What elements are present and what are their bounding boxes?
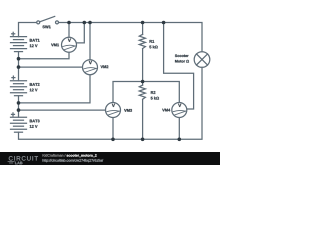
battery BAT1 bbox=[11, 32, 27, 51]
voltmeter VM4 bbox=[172, 103, 187, 118]
node A2 BAT2+ / VM2 left bbox=[17, 65, 21, 69]
node bottom bus / VM4 bottom bbox=[178, 138, 182, 142]
node top bus / VM4 branch bbox=[162, 21, 166, 25]
battery BAT3 bbox=[11, 113, 27, 132]
node top bus / VM1 top bbox=[67, 21, 71, 25]
label VM2 bbox=[101, 65, 109, 68]
wire VM3 bottom bbox=[112, 118, 114, 140]
wire R2 bottom lead to bottom bus bbox=[142, 99, 144, 139]
label VM4 bbox=[162, 109, 170, 112]
wire VM1 bottom elbow to node A1 bbox=[19, 52, 70, 58]
node B1 BAT2- / VM2 bottom bbox=[17, 101, 21, 105]
footer watermark bar bbox=[0, 152, 220, 165]
logo CIRCUITLAB bbox=[9, 156, 38, 160]
wire VM2 left to node A2 bbox=[19, 66, 83, 68]
resistor R1 bbox=[139, 34, 145, 48]
battery BAT2 bbox=[11, 76, 27, 96]
wire top bus right segment (SW1 to motor top corner) bbox=[59, 23, 202, 52]
node top bus / R1 top bbox=[141, 21, 145, 25]
wire VM4 right elbow to bus bbox=[164, 23, 194, 110]
footer text line 2 bbox=[43, 159, 104, 162]
label BAT1 bbox=[30, 39, 40, 42]
wire VM2 top bbox=[89, 23, 91, 60]
node B2 BAT3+ / VM3 left bbox=[17, 108, 21, 112]
wire top bus left segment (battery+ to SW1) bbox=[19, 23, 37, 37]
node A1 BAT1- / VM1 bottom bbox=[17, 57, 21, 61]
wire left column BAT3- to bottom bus to motor bottom bbox=[19, 67, 203, 139]
label Scooter Motor line 2 bbox=[175, 60, 189, 63]
wire R1 top lead bbox=[142, 23, 144, 35]
node mid net / R2 top bbox=[141, 80, 145, 84]
node bottom bus / R2 bottom bbox=[141, 138, 145, 142]
node bottom bus / VM3 bottom bbox=[111, 138, 115, 142]
wire left column BAT2- to BAT3+ bbox=[18, 96, 20, 117]
voltmeter VM3 bbox=[106, 103, 121, 118]
label R2 value 5 kOhm bbox=[151, 97, 159, 100]
switch SW1 bbox=[37, 16, 59, 24]
voltmeter VM2 bbox=[83, 60, 98, 75]
node top bus / VM1 right bbox=[83, 21, 87, 25]
voltmeter VM1 bbox=[62, 37, 77, 52]
wire VM2 bottom elbow to node B1 bbox=[19, 75, 91, 103]
wire VM4 bottom bbox=[178, 117, 180, 139]
label R1 value 5 kOhm bbox=[149, 45, 157, 48]
label VM3 bbox=[124, 109, 132, 112]
wire R2 top lead bbox=[142, 82, 144, 86]
label R2 bbox=[151, 91, 156, 94]
label BAT3 value 12 V bbox=[30, 125, 38, 128]
label VM1 bbox=[51, 44, 59, 47]
wire VM1 right elbow to bus bbox=[76, 23, 84, 43]
label BAT2 bbox=[30, 83, 40, 86]
wire VM3 left to node B2 bbox=[19, 109, 106, 111]
label R1 bbox=[150, 40, 155, 43]
label Scooter Motor line 1 bbox=[175, 54, 189, 57]
wire VM3 top to mid net to VM4 top bbox=[113, 82, 179, 103]
label BAT2 value 12 V bbox=[30, 89, 38, 92]
resistor R2 bbox=[139, 85, 145, 99]
wire VM1 top bbox=[68, 23, 70, 38]
motor M1 (Scooter Motor) bbox=[194, 52, 210, 68]
wire left column BAT1- to BAT2+ bbox=[18, 52, 20, 81]
label SW1 bbox=[42, 25, 50, 28]
node top bus / VM2 top bbox=[88, 21, 92, 25]
label BAT3 bbox=[30, 120, 40, 123]
wire R1 bottom lead to mid net bbox=[142, 49, 144, 82]
footer text line 1 bbox=[43, 154, 66, 157]
label BAT1 value 12 V bbox=[30, 44, 38, 47]
